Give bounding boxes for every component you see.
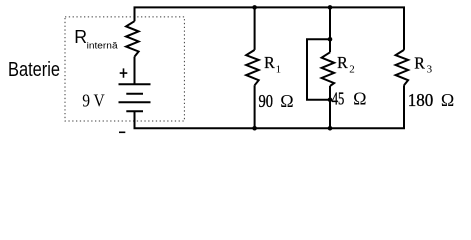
svg-text:Baterie: Baterie bbox=[8, 59, 60, 81]
svg-text:internă: internă bbox=[87, 41, 118, 51]
svg-text:R: R bbox=[337, 53, 348, 72]
svg-text:180: 180 bbox=[408, 90, 434, 110]
svg-text:45: 45 bbox=[332, 89, 345, 109]
svg-text:90: 90 bbox=[259, 91, 274, 111]
svg-text:Ω: Ω bbox=[280, 91, 293, 111]
svg-text:R: R bbox=[74, 27, 87, 47]
svg-text:R: R bbox=[414, 53, 425, 72]
svg-text:3: 3 bbox=[427, 63, 433, 75]
svg-text:2: 2 bbox=[349, 63, 355, 75]
svg-text:1: 1 bbox=[276, 63, 282, 75]
svg-text:Ω: Ω bbox=[353, 89, 366, 109]
svg-text:R: R bbox=[264, 53, 275, 72]
svg-text:9 V: 9 V bbox=[82, 91, 105, 111]
svg-text:Ω: Ω bbox=[441, 90, 454, 110]
